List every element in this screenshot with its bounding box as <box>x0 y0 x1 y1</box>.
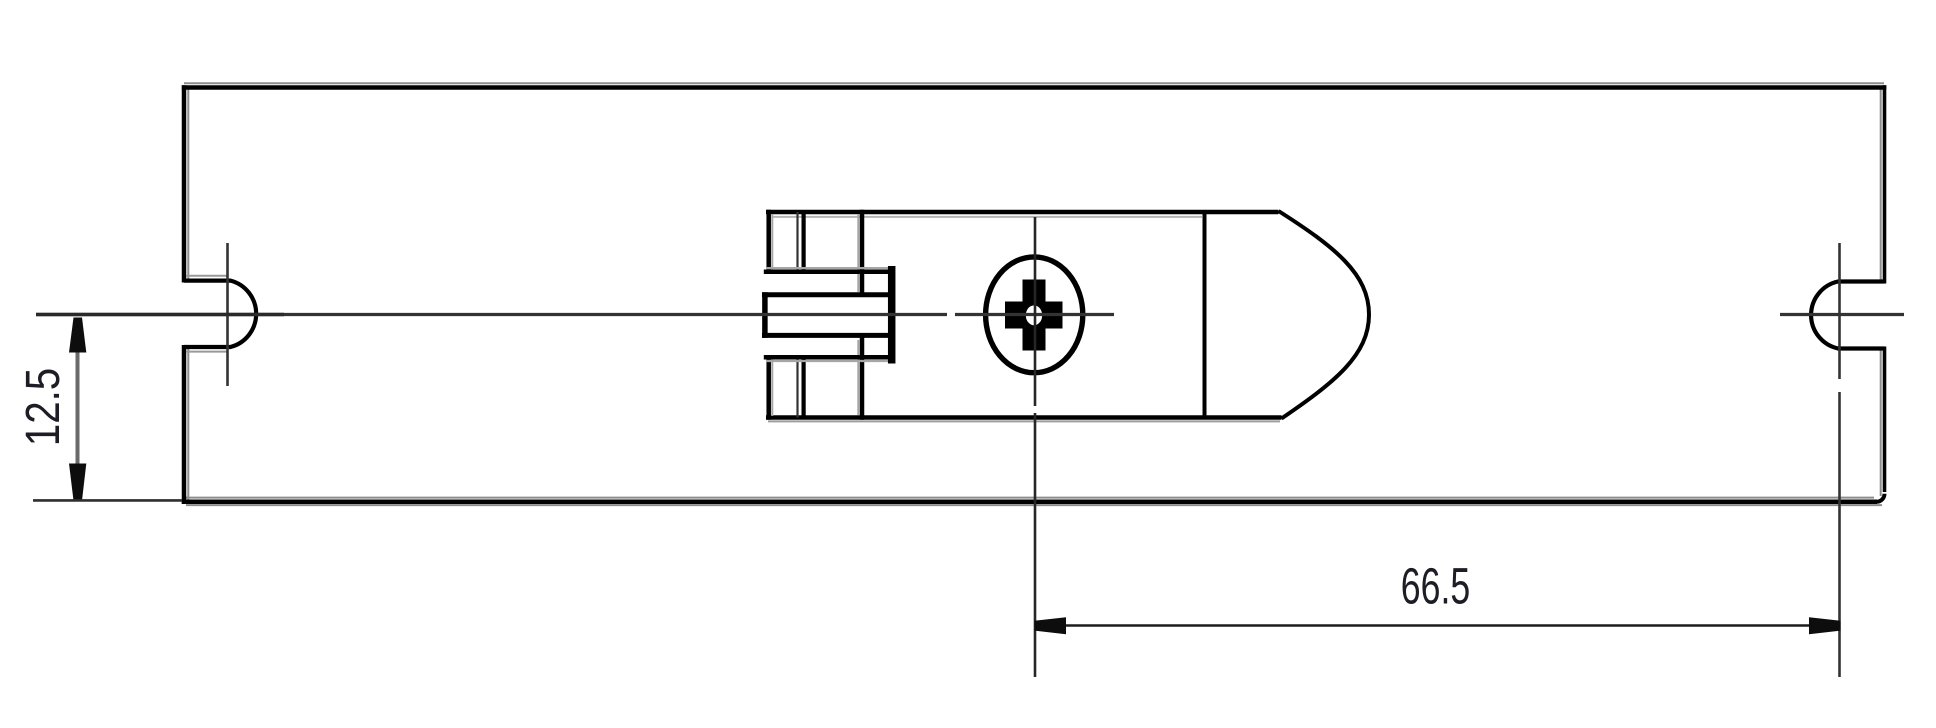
phillips cross vertical bar <box>1023 280 1046 351</box>
top prong right gray <box>857 214 859 292</box>
top prong left gray <box>771 214 773 271</box>
dimension 66.5 right arrow <box>1809 617 1841 634</box>
bottom prong thread thin line <box>796 358 798 418</box>
svg-text:66.5: 66.5 <box>1401 558 1470 615</box>
plate bottom-right rounded corner <box>1877 494 1885 502</box>
plate top edge <box>182 85 1887 90</box>
dimension 12.5 top extension line overlap <box>36 313 284 316</box>
screw body separator line <box>1203 212 1207 418</box>
bottom prong top line <box>764 355 895 360</box>
top prong bottom line <box>764 270 893 275</box>
screw body top gray companion <box>772 216 1202 218</box>
phillips cross horizontal bar <box>1005 302 1063 329</box>
top prong left edge <box>766 210 771 274</box>
shank left edge <box>762 292 768 338</box>
plate right edge upper segment <box>1883 85 1887 283</box>
left notch <box>184 281 256 347</box>
top prong right edge <box>860 210 865 295</box>
plate top edge gray companion <box>184 82 1884 84</box>
top prong thread thick line <box>801 212 805 272</box>
phillips cross center hole <box>1026 305 1042 325</box>
main horizontal centerline <box>36 313 947 316</box>
plate left edge upper segment <box>182 85 187 282</box>
dimension 12.5 top arrow <box>69 318 86 353</box>
plate right edge lower segment <box>1883 347 1887 493</box>
plate bottom edge <box>182 500 1877 505</box>
screw body nose <box>1279 211 1370 419</box>
plate left edge lower segment <box>182 345 187 504</box>
screw head outline <box>986 257 1083 373</box>
dimension 66.5 left arrow <box>1035 617 1067 634</box>
top prong bottom gray <box>766 267 888 269</box>
screw body bottom line <box>766 415 1282 420</box>
bottom prong thread thick line <box>801 358 805 418</box>
plate right edge gray companion <box>1880 88 1882 280</box>
left notch gray companions <box>186 275 228 277</box>
screw body top line <box>766 210 1279 215</box>
dimension 12.5 bottom arrow <box>69 464 86 501</box>
bottom prong right gray <box>857 340 859 415</box>
dimension 12.5 bottom extension line <box>33 499 182 502</box>
bottom prong top gray <box>766 360 888 362</box>
bottom prong left edge <box>766 356 771 420</box>
plate bottom edge gray companions <box>186 497 1874 499</box>
shank bottom line <box>762 333 889 338</box>
right notch vertical centerline <box>1838 243 1841 379</box>
top prong thread thin line <box>796 212 798 272</box>
bottom prong right edge <box>860 338 865 420</box>
right notch <box>1811 282 1884 349</box>
screw vertical centerline <box>1034 217 1037 406</box>
shank top line <box>762 292 889 297</box>
bottom prong left gray <box>771 359 773 416</box>
shank right collar line <box>888 266 896 364</box>
left notch vertical centerline <box>226 243 229 386</box>
screw body bottom gray companion <box>768 420 1280 422</box>
dimension 12.5 line <box>76 318 80 498</box>
svg-text:12.5: 12.5 <box>17 368 70 446</box>
dimension 66.5 line <box>1035 624 1840 626</box>
plate left edge gray companion <box>187 88 189 279</box>
